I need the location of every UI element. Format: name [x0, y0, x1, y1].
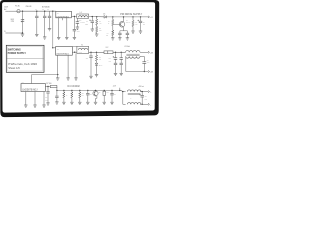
- resistor R5: [95, 55, 97, 61]
- wire primary drive supply rail: [106, 16, 148, 18]
- wire AC neutral to junction: [8, 32, 22, 34]
- junction R5: [96, 52, 97, 53]
- title block: [6, 45, 44, 72]
- capacitor C5: [73, 29, 76, 31]
- junction C13: [115, 52, 116, 53]
- capacitor C16: [141, 96, 144, 98]
- capacitor C4: [76, 22, 79, 24]
- wire to C1: [36, 11, 38, 16]
- capacitor C7a: [119, 31, 121, 33]
- inductor L4 bottom winding: [127, 103, 141, 105]
- capacitor C8: [139, 21, 142, 23]
- capacitor C16: [141, 92, 143, 96]
- junction minus rail: [142, 104, 143, 105]
- ground VR1: [103, 102, 106, 104]
- resistor R8: [63, 92, 65, 98]
- ground divider: [95, 34, 98, 36]
- wire feedback U3 to U2: [32, 74, 58, 76]
- ground C19: [46, 103, 49, 105]
- capacitor C7b: [126, 31, 128, 33]
- pin L2 secondary gnd: [75, 54, 77, 78]
- wire Q1 collector: [123, 17, 125, 22]
- wire -B rail: [126, 71, 148, 73]
- junction C8: [140, 16, 141, 17]
- ground R4: [111, 38, 114, 40]
- ground C1: [35, 34, 38, 36]
- junction U2 in: [52, 47, 53, 48]
- varistor RV1 plates: [21, 20, 24, 22]
- pin U1 gnd2: [66, 18, 68, 38]
- ground C5: [73, 37, 76, 39]
- capacitor C17: [55, 96, 58, 98]
- wire sense rail: [57, 89, 121, 91]
- module U2: [56, 47, 73, 56]
- capacitor C19: [46, 92, 49, 94]
- junction C15: [111, 90, 112, 91]
- junction neutral: [22, 32, 23, 33]
- capacitor C1: [35, 16, 38, 18]
- node +12V terminal: [148, 91, 150, 93]
- wire U2 top stub: [72, 45, 77, 47]
- wire AC live to fuse F1: [8, 10, 16, 12]
- resistor R3: [112, 20, 114, 26]
- wire to varistor RV1: [22, 11, 24, 19]
- capacitor C15: [110, 93, 113, 95]
- junction C18: [87, 90, 88, 91]
- ground C13: [114, 73, 117, 75]
- ground C18: [86, 102, 89, 104]
- capacitor C19 branch: [47, 87, 49, 92]
- pin U1 short: [61, 18, 63, 20]
- wire L1 to D1: [89, 16, 104, 18]
- ground C11: [120, 73, 123, 75]
- ground C17: [55, 102, 58, 104]
- wire R7 down: [56, 87, 58, 91]
- transistor Q1: [119, 22, 125, 28]
- pin U3 c: [43, 92, 45, 106]
- capacitor: [126, 33, 129, 35]
- diode D1: [104, 16, 106, 19]
- core L4: [128, 93, 141, 95]
- junction C12: [90, 52, 91, 53]
- ground U3 a: [24, 105, 27, 107]
- junction C11: [121, 52, 122, 53]
- inductor L4 top winding: [127, 90, 141, 92]
- ground chassis: [21, 34, 24, 36]
- pin U3 a: [25, 92, 27, 106]
- wire into U2: [53, 47, 56, 49]
- svg-text:LM2587B ADJ: LM2587B ADJ: [22, 89, 38, 92]
- ground C6: [91, 29, 94, 31]
- wire U3 out: [45, 86, 50, 88]
- svg-text:PRI DRIVE SUPPLY: PRI DRIVE SUPPLY: [120, 13, 142, 16]
- zener Z2: [95, 63, 98, 65]
- resistor R2: [96, 27, 98, 33]
- junction U2 out: [74, 52, 75, 53]
- junction C16: [142, 91, 143, 92]
- node +B2 output: [148, 71, 150, 73]
- node +B output: [148, 51, 150, 53]
- capacitor C18: [86, 93, 89, 95]
- capacitor: [118, 33, 121, 35]
- junction feedback: [57, 74, 58, 75]
- junction VR1: [104, 90, 105, 91]
- pin U3 b: [34, 92, 36, 106]
- ground U2 b: [66, 78, 69, 80]
- inductor L1 winding: [79, 16, 88, 18]
- zener Z1: [132, 20, 134, 26]
- resistor R7: [50, 85, 57, 87]
- junction C1: [36, 11, 37, 12]
- junction divider: [96, 16, 97, 17]
- wire L3b left down: [125, 56, 127, 71]
- wire secondary rail: [89, 51, 126, 53]
- wire minus rail: [122, 92, 124, 105]
- capacitor C12: [89, 56, 92, 58]
- junction 12V tap: [119, 90, 120, 91]
- capacitor C11: [120, 58, 123, 60]
- pin U2 a: [57, 55, 59, 74]
- inductor L2 winding: [78, 48, 87, 50]
- ground C7a: [118, 38, 121, 40]
- wire Q1 emitter: [123, 27, 125, 31]
- ground Q2: [94, 102, 97, 104]
- ground Z1: [131, 31, 134, 33]
- core L3: [126, 53, 139, 55]
- ground U1 pin1: [57, 37, 60, 39]
- junction C14 rail: [144, 71, 145, 72]
- node -12V terminal: [148, 103, 150, 105]
- ground C3: [48, 29, 51, 31]
- junction varistor tap: [22, 11, 23, 12]
- diode D2 body: [104, 51, 113, 54]
- capacitor C6: [91, 21, 94, 23]
- junction L4 in: [122, 91, 123, 92]
- ground L2 secondary: [74, 78, 77, 80]
- svg-text:POWER SUPPLY: POWER SUPPLY: [8, 53, 27, 55]
- ground Z2: [95, 75, 98, 77]
- wire L3b right: [140, 55, 144, 57]
- ground U3 c: [42, 105, 45, 107]
- capacitor C14: [142, 62, 146, 64]
- junction R9: [71, 90, 72, 91]
- resistor R1: [96, 19, 98, 25]
- resistor R9: [71, 92, 73, 98]
- wire U2 out to L2: [72, 51, 77, 53]
- resistor R4: [112, 30, 114, 35]
- capacitor C5 branch: [73, 17, 75, 30]
- page border frame: [0, 0, 159, 117]
- junction R8: [63, 90, 64, 91]
- junction Z1: [132, 16, 133, 17]
- junction HV feed: [52, 11, 53, 12]
- capacitor C13: [114, 58, 117, 60]
- svg-text:P.Wherrels, Feb 1996: P.Wherrels, Feb 1996: [8, 62, 37, 66]
- ground C4: [76, 27, 79, 29]
- wire to -12V: [140, 103, 148, 105]
- capacitor C13 lower plates: [114, 63, 117, 64]
- wire to C3: [49, 11, 51, 16]
- junction C2: [44, 11, 45, 12]
- capacitor C2: [43, 16, 46, 18]
- preset VR1: [103, 91, 106, 95]
- inductor L3 bottom winding: [126, 56, 140, 58]
- junction Q1 collector: [123, 16, 124, 17]
- node +V supply: [148, 16, 150, 18]
- junction Q2: [95, 90, 96, 91]
- ground U3 b: [33, 105, 36, 107]
- junction C17: [56, 90, 57, 91]
- ground C15: [110, 102, 113, 104]
- junction R7: [47, 86, 48, 87]
- ground C8: [139, 31, 142, 33]
- pin U1 gnd1: [58, 18, 60, 38]
- ground R8: [62, 102, 65, 104]
- junction C5 tap: [74, 16, 75, 17]
- wire HV feed down to U2: [52, 11, 54, 48]
- ground U2 a: [56, 78, 59, 80]
- wire U1 out to L1: [71, 16, 76, 18]
- capacitor C3: [48, 16, 51, 18]
- ground C2: [43, 37, 46, 39]
- wire L4 to +12V: [140, 91, 148, 93]
- wire rail into L4: [121, 90, 123, 91]
- junction R3: [112, 16, 113, 17]
- capacitor C11 lower plates: [120, 63, 123, 64]
- svg-text:SWITCHING: SWITCHING: [8, 49, 21, 51]
- junction C6: [92, 16, 93, 17]
- wire fuse to module U1: [20, 10, 56, 12]
- ground C7b: [126, 38, 129, 40]
- inductor L3 top winding: [126, 50, 140, 52]
- ground R10: [78, 102, 81, 104]
- junction R10: [79, 90, 80, 91]
- pin U2 b: [67, 55, 69, 78]
- svg-text:D4 UF4002: D4 UF4002: [68, 85, 81, 88]
- ground R9: [70, 102, 73, 104]
- capacitor C4 branch: [76, 18, 78, 21]
- wire L3 to +B: [140, 51, 148, 53]
- resistor R10: [79, 92, 81, 98]
- wire to C2: [44, 11, 46, 16]
- ground C12: [89, 76, 92, 78]
- ground U1 pin2: [65, 37, 68, 39]
